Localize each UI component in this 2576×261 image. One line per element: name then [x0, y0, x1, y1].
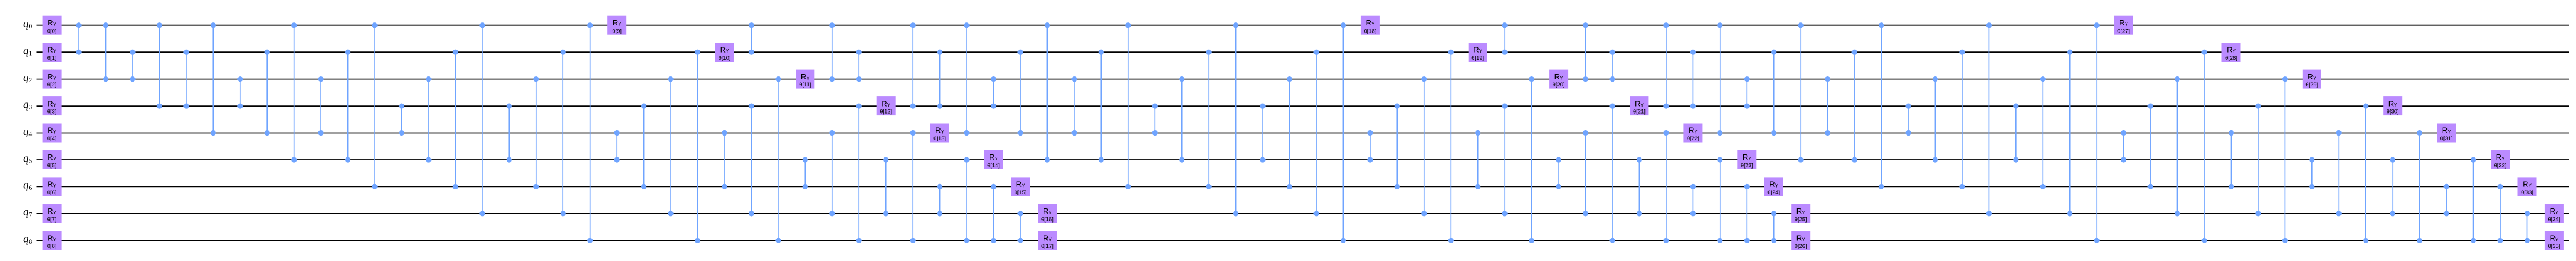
CZ gate q6-q7 — [1690, 184, 1696, 217]
CZ gate q2-q5 — [426, 76, 431, 163]
Ry gate theta[32] on q5 — [2491, 150, 2510, 169]
CZ gate q5-q6 — [1556, 157, 1561, 189]
CZ gate q4-q6 — [722, 130, 727, 189]
Ry gate theta[5] on q5 — [43, 150, 62, 169]
svg-text:θ[35]: θ[35] — [2548, 243, 2560, 249]
svg-text:θ[6]: θ[6] — [47, 189, 57, 195]
CZ gate q4-q5 — [2121, 130, 2126, 163]
CZ gate q1-q8 — [695, 50, 700, 243]
CZ gate q2-q8 — [775, 76, 781, 243]
Ry gate theta[30] on q3 — [2383, 96, 2402, 115]
Ry gate theta[7] on q7 — [43, 204, 62, 223]
CZ gate q3-q4 — [1905, 104, 1911, 136]
svg-text:θ[14]: θ[14] — [987, 162, 1000, 169]
CZ gate q0-q7 — [1233, 22, 1238, 216]
CZ gate q3-q7 — [1502, 104, 1508, 217]
CZ gate q0-q4 — [1717, 22, 1722, 136]
svg-text:θ[17]: θ[17] — [1041, 243, 1054, 249]
Ry gate theta[8] on q8 — [43, 231, 62, 250]
CZ gate q2-q7 — [2175, 76, 2180, 217]
CZ gate q1-q6 — [1959, 50, 1965, 189]
CZ gate q0-q2 — [829, 22, 835, 82]
CZ gate q1-q8 — [1448, 50, 1454, 243]
svg-text:θ[1]: θ[1] — [47, 54, 57, 61]
CZ gate q4-q5 — [1367, 130, 1373, 163]
Ry gate theta[25] on q7 — [1791, 204, 1810, 223]
svg-text:θ[5]: θ[5] — [47, 162, 57, 169]
CZ gate q3-q4 — [1152, 104, 1158, 136]
CZ gate q1-q3 — [183, 50, 189, 109]
svg-text:θ[3]: θ[3] — [47, 108, 57, 115]
CZ gate q2-q8 — [2282, 76, 2288, 243]
CZ gate q0-q5 — [1798, 22, 1804, 163]
wire q3 — [37, 105, 2570, 107]
CZ gate q4-q6 — [1475, 130, 1480, 189]
Ry gate theta[33] on q6 — [2518, 177, 2537, 196]
CZ gate q3-q6 — [2148, 104, 2153, 190]
CZ gate q5-q6 — [2309, 157, 2314, 189]
CZ gate q0-q6 — [1125, 22, 1131, 189]
Ry gate theta[14] on q5 — [984, 150, 1003, 169]
CZ gate q4-q7 — [2336, 130, 2342, 217]
CZ gate q0-q6 — [372, 22, 378, 189]
wire q1 — [37, 51, 2570, 53]
CZ gate q0-q3 — [910, 22, 916, 109]
CZ gate q1-q2 — [130, 50, 135, 82]
svg-text:θ[21]: θ[21] — [1633, 108, 1646, 115]
CZ gate q1-q7 — [561, 50, 566, 217]
Ry gate theta[3] on q3 — [43, 96, 62, 115]
CZ gate q1-q7 — [1313, 50, 1319, 217]
CZ gate q4-q5 — [614, 130, 620, 163]
CZ gate q7-q8 — [1771, 211, 1776, 243]
wire q7 — [37, 213, 2570, 214]
CZ gate q3-q7 — [2255, 104, 2261, 217]
CZ gate q0-q7 — [479, 22, 485, 216]
CZ gate q0-q8 — [587, 22, 593, 243]
CZ gate q3-q8 — [1609, 104, 1615, 243]
svg-text:θ[33]: θ[33] — [2521, 189, 2533, 195]
CZ gate q5-q7 — [883, 157, 888, 216]
CZ gate q4-q8 — [910, 130, 916, 243]
CZ gate q1-q5 — [1852, 50, 1857, 163]
CZ gate q0-q1 — [1502, 22, 1508, 55]
CZ gate q2-q6 — [533, 76, 539, 189]
CZ gate q1-q6 — [453, 50, 458, 189]
CZ gate q5-q8 — [1717, 157, 1722, 243]
CZ gate q0-q6 — [1879, 22, 1884, 189]
wire q5 — [37, 159, 2570, 160]
CZ gate q5-q7 — [2390, 157, 2395, 216]
wire q4 — [37, 133, 2570, 134]
CZ gate q6-q8 — [1744, 184, 1750, 243]
CZ gate q1-q4 — [1771, 50, 1776, 136]
Ry gate theta[12] on q3 — [877, 96, 896, 115]
svg-text:θ[10]: θ[10] — [719, 54, 731, 61]
CZ gate q2-q3 — [991, 76, 996, 109]
CZ gate q2-q7 — [1421, 76, 1427, 217]
CZ gate q2-q3 — [237, 76, 243, 109]
svg-text:θ[7]: θ[7] — [47, 216, 57, 223]
CZ gate q1-q5 — [345, 50, 350, 163]
svg-text:θ[4]: θ[4] — [47, 135, 57, 141]
Ry gate theta[23] on q5 — [1737, 150, 1756, 169]
CZ gate q0-q4 — [211, 22, 216, 136]
Ry gate theta[31] on q4 — [2437, 124, 2456, 143]
CZ gate q1-q6 — [1206, 50, 1212, 189]
Ry gate theta[11] on q2 — [796, 70, 814, 89]
CZ gate q6-q8 — [2497, 184, 2503, 243]
svg-text:θ[15]: θ[15] — [1015, 189, 1027, 195]
Ry gate theta[17] on q8 — [1038, 231, 1057, 250]
CZ gate q0-q1 — [76, 22, 82, 55]
CZ gate q1-q4 — [265, 50, 270, 136]
CZ gate q3-q4 — [399, 104, 404, 136]
Ry gate theta[16] on q7 — [1038, 204, 1057, 223]
CZ gate q0-q4 — [964, 22, 970, 136]
CZ gate q0-q2 — [103, 22, 108, 82]
Ry gate theta[24] on q6 — [1764, 177, 1783, 196]
wire q0 — [37, 25, 2570, 26]
Ry gate theta[6] on q6 — [43, 177, 62, 196]
svg-text:θ[0]: θ[0] — [47, 27, 57, 34]
Ry gate theta[1] on q1 — [43, 43, 62, 62]
CZ gate q3-q6 — [1395, 104, 1400, 190]
CZ gate q6-q7 — [2444, 184, 2449, 217]
Ry gate theta[18] on q0 — [1361, 16, 1380, 35]
CZ gate q2-q6 — [2040, 76, 2046, 189]
CZ gate q1-q8 — [2201, 50, 2207, 243]
Ry gate theta[20] on q2 — [1549, 70, 1568, 89]
CZ gate q6-q7 — [937, 184, 942, 217]
CZ gate q2-q4 — [1071, 76, 1077, 136]
Ry gate theta[13] on q4 — [930, 124, 949, 143]
svg-text:θ[27]: θ[27] — [2117, 27, 2130, 34]
CZ gate q3-q5 — [1260, 104, 1266, 163]
CZ gate q7-q8 — [1017, 211, 1023, 243]
svg-text:θ[8]: θ[8] — [47, 243, 57, 249]
svg-text:θ[13]: θ[13] — [933, 135, 946, 141]
CZ gate q5-q6 — [803, 157, 808, 189]
Ry gate theta[0] on q0 — [43, 16, 62, 35]
svg-text:θ[29]: θ[29] — [2305, 81, 2318, 88]
CZ gate q0-q2 — [1583, 22, 1588, 82]
Ry gate theta[4] on q4 — [43, 124, 62, 143]
Ry gate theta[34] on q7 — [2545, 204, 2564, 223]
CZ gate q2-q4 — [318, 76, 324, 136]
CZ gate q4-q6 — [2229, 130, 2234, 189]
svg-text:θ[22]: θ[22] — [1687, 135, 1699, 141]
CZ gate q1-q2 — [1609, 50, 1615, 82]
CZ gate q3-q5 — [2013, 104, 2018, 163]
svg-text:θ[16]: θ[16] — [1041, 216, 1054, 223]
Ry gate theta[29] on q2 — [2303, 70, 2321, 89]
Ry gate theta[2] on q2 — [43, 70, 62, 89]
svg-text:θ[20]: θ[20] — [1553, 81, 1565, 88]
svg-text:θ[11]: θ[11] — [799, 81, 811, 88]
CZ gate q0-q1 — [749, 22, 754, 55]
CZ gate q2-q3 — [1744, 76, 1750, 109]
CZ gate q1-q2 — [856, 50, 862, 82]
svg-text:θ[26]: θ[26] — [1795, 243, 1807, 249]
CZ gate q4-q7 — [829, 130, 835, 217]
svg-text:θ[25]: θ[25] — [1795, 216, 1807, 223]
CZ gate q5-q8 — [964, 157, 970, 243]
CZ gate q3-q5 — [507, 104, 512, 163]
CZ gate q3-q8 — [2363, 104, 2368, 243]
CZ gate q3-q8 — [856, 104, 862, 243]
svg-text:θ[9]: θ[9] — [612, 27, 622, 34]
svg-text:θ[19]: θ[19] — [1471, 54, 1484, 61]
CZ gate q2-q7 — [668, 76, 674, 217]
CZ gate q2-q4 — [1825, 76, 1830, 136]
Ry gate theta[35] on q8 — [2545, 231, 2564, 250]
CZ gate q4-q7 — [1583, 130, 1588, 217]
svg-text:θ[30]: θ[30] — [2387, 108, 2399, 115]
Ry gate theta[27] on q0 — [2114, 16, 2133, 35]
svg-text:θ[24]: θ[24] — [1767, 189, 1780, 195]
CZ gate q1-q3 — [1690, 50, 1696, 109]
Ry gate theta[19] on q1 — [1469, 43, 1487, 62]
Ry gate theta[15] on q6 — [1011, 177, 1030, 196]
CZ gate q0-q7 — [1986, 22, 1992, 216]
CZ gate q6-q8 — [991, 184, 996, 243]
CZ gate q0-q5 — [1045, 22, 1050, 163]
CZ gate q1-q5 — [1099, 50, 1104, 163]
CZ gate q2-q5 — [1933, 76, 1938, 163]
svg-text:θ[31]: θ[31] — [2440, 135, 2453, 141]
Ry gate theta[9] on q0 — [607, 16, 626, 35]
CZ gate q4-q8 — [2417, 130, 2422, 243]
svg-text:θ[2]: θ[2] — [47, 81, 57, 88]
svg-text:θ[32]: θ[32] — [2494, 162, 2507, 169]
CZ gate q0-q3 — [1663, 22, 1669, 109]
svg-text:θ[34]: θ[34] — [2548, 216, 2560, 223]
CZ gate q1-q4 — [1017, 50, 1023, 136]
CZ gate q3-q7 — [749, 104, 754, 217]
CZ gate q4-q8 — [1663, 130, 1669, 243]
CZ gate q2-q6 — [1287, 76, 1292, 189]
CZ gate q2-q8 — [1529, 76, 1534, 243]
CZ gate q2-q5 — [1179, 76, 1184, 163]
wire q2 — [37, 79, 2570, 80]
svg-text:θ[12]: θ[12] — [880, 108, 892, 115]
CZ gate q5-q8 — [2471, 157, 2476, 243]
wire q6 — [37, 186, 2570, 187]
Ry gate theta[21] on q3 — [1630, 96, 1648, 115]
svg-text:θ[28]: θ[28] — [2225, 54, 2237, 61]
svg-text:θ[18]: θ[18] — [1364, 27, 1376, 34]
Ry gate theta[10] on q1 — [715, 43, 734, 62]
wire q8 — [37, 240, 2570, 241]
Ry gate theta[28] on q1 — [2222, 43, 2241, 62]
CZ gate q1-q3 — [937, 50, 942, 109]
CZ gate q1-q7 — [2067, 50, 2072, 217]
CZ gate q5-q7 — [1637, 157, 1642, 216]
CZ gate q0-q5 — [291, 22, 297, 163]
Ry gate theta[22] on q4 — [1683, 124, 1702, 143]
CZ gate q0-q3 — [157, 22, 162, 109]
CZ gate q3-q6 — [641, 104, 646, 190]
CZ gate q7-q8 — [2525, 211, 2530, 243]
Ry gate theta[26] on q8 — [1791, 231, 1810, 250]
CZ gate q0-q8 — [1341, 22, 1346, 243]
CZ gate q0-q8 — [2094, 22, 2100, 243]
svg-text:θ[23]: θ[23] — [1741, 162, 1753, 169]
